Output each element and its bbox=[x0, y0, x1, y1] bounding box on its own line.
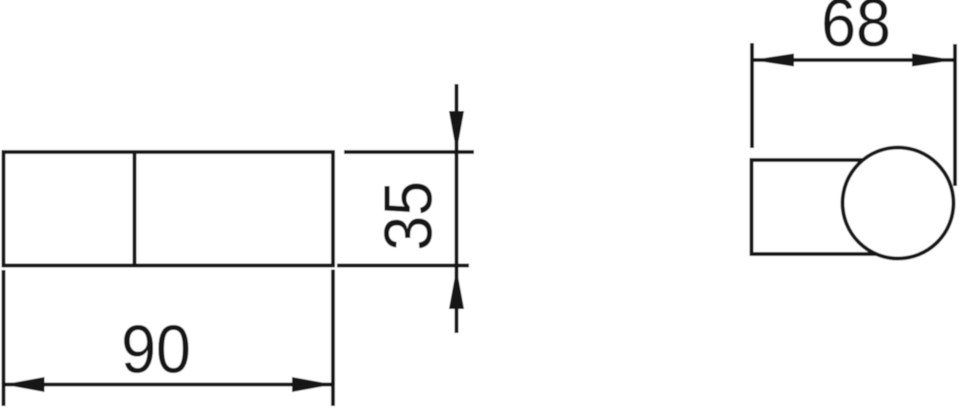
side view body (wall plate profile) bbox=[752, 160, 892, 254]
arrowhead right (68 dim) bbox=[912, 54, 955, 67]
side view knob (circle) bbox=[843, 148, 954, 259]
extension line left (90 dim) bbox=[2, 270, 6, 406]
arrowhead right (90 dim) bbox=[292, 377, 333, 392]
extension line top (35 dim) bbox=[344, 150, 474, 154]
svg-text:35: 35 bbox=[370, 181, 446, 251]
extension line left (68 dim) bbox=[750, 43, 754, 148]
front view outline (rectangle 90x35) bbox=[4, 152, 334, 266]
arrowhead left (68 dim) bbox=[752, 54, 794, 67]
svg-text:68: 68 bbox=[821, 0, 891, 61]
dimension line 90 (horizontal) bbox=[4, 383, 334, 387]
dimension line 35 (vertical) bbox=[455, 84, 459, 333]
extension line right (90 dim) bbox=[331, 270, 335, 407]
arrowhead left (90 dim) bbox=[4, 377, 45, 392]
divider line (edge between plate and body) bbox=[133, 152, 137, 266]
arrowhead up (35 dim bottom) bbox=[449, 268, 464, 309]
dimension line 68 (horizontal) bbox=[752, 58, 955, 62]
svg-text:90: 90 bbox=[121, 311, 191, 387]
extension line bottom (35 dim) bbox=[337, 264, 469, 268]
extension line right (68 dim) bbox=[953, 44, 957, 186]
arrowhead down (35 dim top) bbox=[449, 111, 464, 152]
